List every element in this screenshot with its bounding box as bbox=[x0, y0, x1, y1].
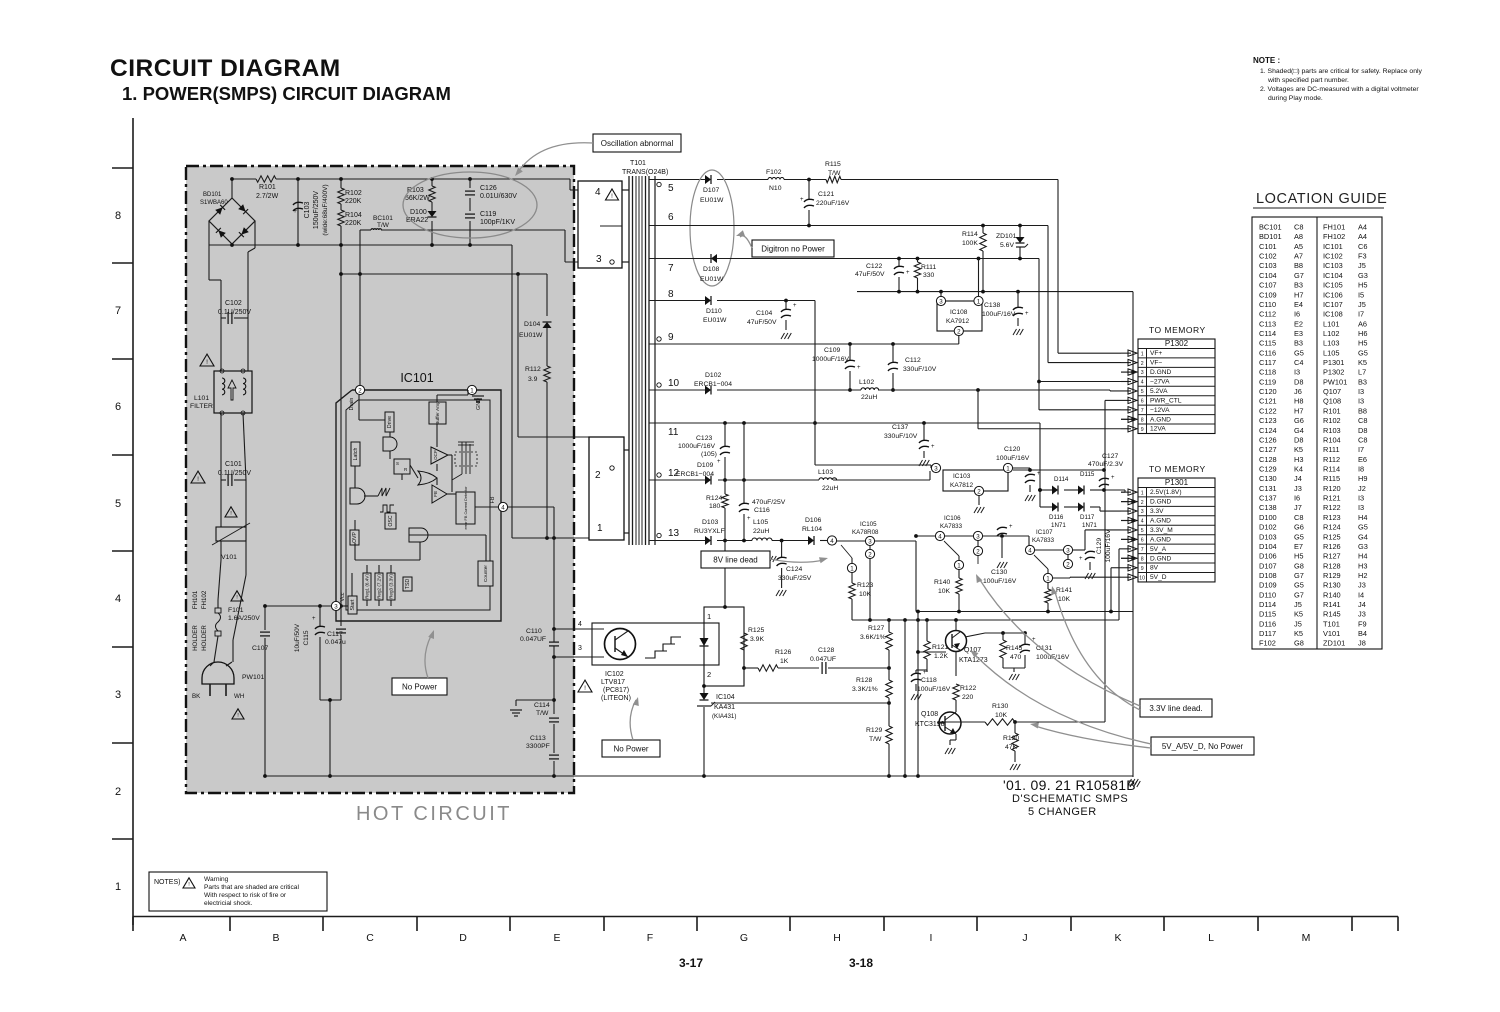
svg-text:(PC817): (PC817) bbox=[603, 687, 629, 694]
svg-text:L101: L101 bbox=[1323, 319, 1339, 328]
svg-text:5V_D: 5V_D bbox=[1150, 574, 1167, 581]
warning triangle L101 bbox=[200, 354, 214, 366]
svg-text:2: 2 bbox=[976, 548, 980, 555]
wire 8V rail x815 bbox=[813, 301, 931, 469]
svg-text:K5: K5 bbox=[1294, 610, 1303, 619]
svg-text:IC107: IC107 bbox=[1323, 300, 1343, 309]
svg-text:FILTER: FILTER bbox=[190, 403, 213, 410]
svg-text:TO MEMORY: TO MEMORY bbox=[1149, 325, 1206, 335]
svg-text:R114: R114 bbox=[962, 231, 978, 238]
svg-text:J4: J4 bbox=[1358, 600, 1366, 609]
svg-text:Reg2 (7.2V): Reg2 (7.2V) bbox=[377, 574, 382, 599]
svg-text:I7: I7 bbox=[1358, 310, 1364, 319]
diode D103 bbox=[694, 519, 725, 545]
capacitor C130 bbox=[983, 524, 1017, 585]
svg-text:1.6A/250V: 1.6A/250V bbox=[228, 615, 260, 622]
svg-text:4: 4 bbox=[578, 621, 582, 628]
svg-text:IC104: IC104 bbox=[1323, 271, 1343, 280]
capacitor C103 bbox=[293, 177, 329, 247]
svg-text:R130: R130 bbox=[992, 703, 1008, 710]
svg-text:C131: C131 bbox=[1259, 484, 1277, 493]
svg-text:D114: D114 bbox=[1259, 600, 1276, 609]
svg-text:C109: C109 bbox=[1259, 290, 1277, 299]
svg-text:4: 4 bbox=[938, 533, 942, 540]
svg-text:EU01W: EU01W bbox=[700, 276, 724, 283]
svg-text:4: 4 bbox=[595, 187, 601, 198]
transformer T101 label bbox=[622, 160, 668, 176]
svg-text:R102: R102 bbox=[1323, 416, 1341, 425]
svg-text:E6: E6 bbox=[1358, 455, 1367, 464]
wire Q108 emitter bbox=[945, 734, 956, 754]
svg-text:0.047UF: 0.047UF bbox=[520, 636, 546, 643]
svg-text:E3: E3 bbox=[1294, 329, 1303, 338]
opto pin4 wire bbox=[552, 621, 604, 631]
svg-text:I3: I3 bbox=[1358, 494, 1364, 503]
svg-text:I8: I8 bbox=[1358, 465, 1364, 474]
svg-text:G5: G5 bbox=[1358, 523, 1368, 532]
svg-text:7: 7 bbox=[1141, 547, 1144, 553]
svg-text:J5: J5 bbox=[1358, 300, 1366, 309]
svg-text:47K: 47K bbox=[1005, 744, 1018, 751]
svg-text:5: 5 bbox=[115, 498, 121, 510]
svg-text:B3: B3 bbox=[1294, 281, 1303, 290]
svg-text:D104: D104 bbox=[1259, 542, 1277, 551]
bridge rectifier BD101 bbox=[200, 177, 255, 247]
oscillation ellipse bbox=[403, 172, 537, 238]
diode D108 bbox=[700, 254, 724, 283]
resistor R115 bbox=[825, 161, 841, 183]
svg-text:P1301: P1301 bbox=[1165, 478, 1189, 487]
svg-text:6: 6 bbox=[1141, 538, 1144, 544]
svg-text:C124: C124 bbox=[786, 566, 802, 573]
svg-text:3: 3 bbox=[1141, 509, 1144, 515]
svg-text:C137: C137 bbox=[1259, 494, 1277, 503]
svg-text:11: 11 bbox=[668, 427, 679, 438]
svg-text:C130: C130 bbox=[1259, 474, 1277, 483]
svg-text:C113: C113 bbox=[1259, 319, 1276, 328]
svg-text:IC104: IC104 bbox=[716, 694, 735, 701]
connector P1302 bbox=[1138, 325, 1215, 434]
svg-text:D8: D8 bbox=[1294, 436, 1303, 445]
svg-text:RL104: RL104 bbox=[802, 526, 822, 533]
svg-text:−12VA: −12VA bbox=[1150, 407, 1170, 414]
wire net292 bbox=[857, 290, 1133, 294]
svg-text:+: + bbox=[1111, 475, 1115, 481]
gray arrow 3.3V a bbox=[976, 574, 1140, 706]
svg-text:H5: H5 bbox=[1358, 281, 1367, 290]
transformer T101 windings bbox=[629, 176, 649, 545]
svg-text:3: 3 bbox=[934, 465, 938, 472]
wire 2.5V row bbox=[1040, 488, 1125, 492]
svg-text:EU01W: EU01W bbox=[703, 317, 727, 324]
svg-text:R101: R101 bbox=[1323, 406, 1341, 415]
wire row5 bbox=[683, 178, 1058, 182]
wire R104 to Vcc bbox=[339, 243, 343, 606]
svg-text:D114: D114 bbox=[1054, 476, 1069, 483]
svg-text:!: ! bbox=[206, 359, 208, 366]
svg-text:R121: R121 bbox=[1323, 494, 1341, 503]
wire FB junction bbox=[553, 507, 555, 629]
svg-text:330: 330 bbox=[923, 272, 935, 279]
svg-text:D.GND: D.GND bbox=[1150, 369, 1171, 376]
svg-text:I3: I3 bbox=[1294, 368, 1300, 377]
svg-text:D115: D115 bbox=[1080, 471, 1095, 478]
wire primary node to pin1 bbox=[512, 245, 589, 540]
svg-text:1: 1 bbox=[1141, 351, 1144, 357]
svg-text:OVP: OVP bbox=[352, 531, 358, 542]
wire KA431 ref bbox=[711, 701, 891, 705]
svg-text:VF+: VF+ bbox=[1150, 350, 1162, 357]
svg-text:A.GND: A.GND bbox=[1150, 517, 1171, 524]
svg-text:2: 2 bbox=[1066, 561, 1070, 568]
svg-text:L102: L102 bbox=[859, 379, 874, 386]
regulator IC103 bbox=[931, 463, 1012, 495]
svg-text:PWR_CTL: PWR_CTL bbox=[1150, 397, 1182, 404]
svg-text:LTV817: LTV817 bbox=[601, 679, 625, 686]
wire opto feed bbox=[723, 539, 727, 607]
svg-text:C119: C119 bbox=[480, 211, 496, 218]
svg-text:0.01U/630V: 0.01U/630V bbox=[480, 193, 517, 200]
wire gnd taps P1301 bbox=[1121, 500, 1135, 560]
wire ladder right rail bbox=[248, 221, 255, 371]
gray arrow 5V a bbox=[970, 650, 1151, 744]
svg-text:T/W: T/W bbox=[869, 736, 882, 743]
svg-text:8V line dead: 8V line dead bbox=[713, 555, 757, 564]
svg-text:56K/2W: 56K/2W bbox=[405, 195, 430, 202]
callout 5V no power bbox=[1151, 737, 1254, 755]
svg-text:A7: A7 bbox=[1294, 252, 1303, 261]
svg-text:G7: G7 bbox=[1294, 571, 1304, 580]
svg-text:I5: I5 bbox=[1358, 290, 1364, 299]
svg-text:1000uF/16V: 1000uF/16V bbox=[812, 356, 850, 363]
svg-text:J3: J3 bbox=[1358, 610, 1366, 619]
svg-text:J4: J4 bbox=[1294, 474, 1302, 483]
svg-text:1: 1 bbox=[957, 562, 961, 569]
svg-text:2: 2 bbox=[977, 488, 981, 495]
svg-text:BD101: BD101 bbox=[1259, 232, 1282, 241]
svg-text:C117: C117 bbox=[327, 631, 343, 638]
svg-text:2.5V(1.8V): 2.5V(1.8V) bbox=[1150, 489, 1182, 496]
svg-text:3: 3 bbox=[115, 689, 121, 701]
svg-text:4: 4 bbox=[1028, 547, 1032, 554]
gray arrow 3.3V b bbox=[1051, 586, 1140, 710]
svg-text:Digitron no Power: Digitron no Power bbox=[761, 244, 825, 253]
svg-text:47uF/50V: 47uF/50V bbox=[855, 271, 885, 278]
svg-text:6: 6 bbox=[115, 401, 121, 413]
capacitor C126 bbox=[465, 177, 517, 211]
wire bus 620 bbox=[852, 618, 1119, 622]
svg-text:D8: D8 bbox=[1358, 426, 1367, 435]
transformer secondary pins bbox=[649, 180, 683, 541]
svg-text:TO MEMORY: TO MEMORY bbox=[1149, 464, 1206, 474]
pin 1 GND bbox=[467, 385, 484, 410]
svg-text:H3: H3 bbox=[1358, 561, 1367, 570]
svg-text:+: + bbox=[923, 670, 927, 676]
svg-text:I3: I3 bbox=[1358, 503, 1364, 512]
svg-text:C115: C115 bbox=[303, 630, 310, 645]
wire 12VA branch bbox=[978, 390, 1121, 429]
svg-text:4: 4 bbox=[1141, 519, 1144, 525]
svg-text:D103: D103 bbox=[702, 519, 718, 526]
svg-text:NOTES): NOTES) bbox=[154, 879, 180, 886]
svg-text:IC105: IC105 bbox=[1323, 281, 1343, 290]
svg-text:5.6V: 5.6V bbox=[1000, 242, 1014, 249]
svg-text:PW101: PW101 bbox=[1323, 377, 1347, 386]
block Reg2 bbox=[375, 573, 383, 600]
connector P1301 bbox=[1138, 464, 1215, 582]
svg-text:CIRCUIT DIAGRAM: CIRCUIT DIAGRAM bbox=[110, 55, 341, 82]
notes warning box bbox=[149, 872, 327, 911]
svg-text:D107: D107 bbox=[703, 187, 719, 194]
svg-text:C116: C116 bbox=[754, 507, 770, 514]
svg-text:0.1U/250V: 0.1U/250V bbox=[218, 309, 251, 316]
svg-text:9: 9 bbox=[1141, 566, 1144, 572]
svg-text:R114: R114 bbox=[1323, 465, 1340, 474]
svg-text:+: + bbox=[1009, 524, 1013, 530]
svg-text:H7: H7 bbox=[1294, 406, 1303, 415]
svg-text:FB: FB bbox=[490, 496, 496, 503]
pin 2 Drain bbox=[349, 385, 365, 410]
svg-text:C103: C103 bbox=[1259, 261, 1277, 270]
svg-text:1: 1 bbox=[115, 881, 121, 893]
capacitor C101 bbox=[218, 461, 251, 486]
svg-text:HOT CIRCUIT: HOT CIRCUIT bbox=[356, 803, 512, 825]
svg-text:A.GND: A.GND bbox=[1150, 416, 1171, 423]
svg-text:10K: 10K bbox=[1058, 596, 1071, 603]
svg-text:PW101: PW101 bbox=[242, 674, 265, 681]
svg-text:D109: D109 bbox=[697, 462, 713, 469]
svg-text:100uF/16V: 100uF/16V bbox=[983, 578, 1017, 585]
svg-text:7: 7 bbox=[1141, 408, 1144, 414]
svg-text:C126: C126 bbox=[1259, 436, 1277, 445]
svg-text:H6: H6 bbox=[1358, 329, 1367, 338]
svg-text:C120: C120 bbox=[1259, 387, 1277, 396]
svg-text:Q108: Q108 bbox=[921, 711, 938, 718]
svg-text:HOLDER: HOLDER bbox=[201, 625, 208, 651]
svg-text:R115: R115 bbox=[1323, 474, 1340, 483]
svg-text:H: H bbox=[833, 932, 841, 944]
svg-text:C122: C122 bbox=[866, 263, 882, 270]
svg-text:1N71: 1N71 bbox=[1082, 522, 1097, 529]
svg-text:D.GND: D.GND bbox=[1150, 499, 1171, 506]
svg-text:K: K bbox=[1114, 932, 1121, 944]
capacitor C138 bbox=[982, 292, 1029, 335]
ground revision bbox=[1130, 781, 1140, 787]
svg-text:+: + bbox=[800, 197, 804, 203]
svg-text:G4: G4 bbox=[1358, 532, 1368, 541]
digitron callout bbox=[752, 240, 834, 257]
svg-text:N10: N10 bbox=[769, 185, 782, 192]
wire ladder mid bbox=[221, 413, 246, 527]
wire row10 bbox=[683, 388, 1121, 392]
svg-text:IC106: IC106 bbox=[1323, 290, 1343, 299]
pin 4 FB bbox=[490, 496, 554, 511]
svg-text:B3: B3 bbox=[1294, 339, 1303, 348]
svg-text:I3: I3 bbox=[1358, 387, 1364, 396]
svg-text:10: 10 bbox=[668, 378, 680, 389]
svg-text:220uF/16V: 220uF/16V bbox=[816, 200, 850, 207]
svg-text:7: 7 bbox=[115, 305, 121, 317]
svg-text:D100: D100 bbox=[1259, 513, 1277, 522]
svg-text:R141: R141 bbox=[1323, 600, 1341, 609]
svg-text:OSC: OSC bbox=[388, 515, 394, 526]
svg-text:L105: L105 bbox=[753, 519, 768, 526]
changer text bbox=[1028, 806, 1097, 818]
svg-text:G6: G6 bbox=[1294, 523, 1304, 532]
svg-text:J6: J6 bbox=[1294, 387, 1302, 396]
svg-text:220K: 220K bbox=[345, 198, 362, 205]
gray arrow no power 2 bbox=[630, 697, 639, 740]
svg-text:R111: R111 bbox=[921, 264, 936, 271]
wire R130 right bbox=[1013, 720, 1105, 724]
svg-text:ERA22: ERA22 bbox=[406, 217, 428, 224]
gray arrow oscillation bbox=[515, 143, 593, 176]
wire v918 bbox=[917, 612, 919, 777]
svg-text:8V: 8V bbox=[1150, 565, 1159, 572]
svg-text:H4: H4 bbox=[1358, 513, 1367, 522]
svg-text:8: 8 bbox=[115, 210, 121, 222]
svg-text:100uF/16V: 100uF/16V bbox=[1105, 529, 1112, 563]
svg-text:100pF/1KV: 100pF/1KV bbox=[480, 219, 515, 226]
svg-text:4: 4 bbox=[501, 504, 505, 511]
svg-text:C103: C103 bbox=[304, 202, 311, 219]
wire IC103 out bbox=[1013, 468, 1106, 472]
wire Q108 base bbox=[938, 722, 985, 723]
wire PWR_CTL bbox=[1105, 400, 1121, 722]
wire Q107 emitter bbox=[955, 651, 957, 676]
svg-text:I7: I7 bbox=[1358, 445, 1364, 454]
resistor R125 bbox=[741, 627, 765, 650]
svg-text:C122: C122 bbox=[1259, 406, 1277, 415]
opto IC102 body bbox=[592, 623, 719, 665]
svg-text:C8: C8 bbox=[1294, 513, 1303, 522]
diode D106 bbox=[802, 517, 822, 545]
capacitor C123 bbox=[678, 423, 730, 480]
svg-text:C4: C4 bbox=[1294, 358, 1303, 367]
wire 5V_A drop bbox=[1119, 549, 1121, 620]
svg-text:2: 2 bbox=[115, 786, 121, 798]
wire Q107 out row bbox=[965, 631, 1027, 637]
svg-text:C8: C8 bbox=[1294, 223, 1303, 232]
svg-text:+: + bbox=[717, 459, 721, 465]
svg-text:C110: C110 bbox=[1259, 300, 1276, 309]
svg-text:(LITEON): (LITEON) bbox=[601, 695, 631, 702]
svg-text:0.047u: 0.047u bbox=[325, 639, 346, 646]
svg-text:R127: R127 bbox=[1323, 552, 1341, 561]
wire IC105 out bbox=[875, 541, 916, 612]
svg-text:G5: G5 bbox=[1294, 532, 1304, 541]
diode D117 bbox=[1078, 503, 1097, 530]
capacitor C116 bbox=[739, 423, 786, 541]
resistor R122 bbox=[953, 684, 977, 712]
svg-text:C118: C118 bbox=[921, 677, 937, 684]
svg-text:F102: F102 bbox=[766, 169, 782, 176]
flipflop RS bbox=[394, 459, 410, 474]
block Latch bbox=[351, 442, 360, 466]
svg-text:A5: A5 bbox=[1294, 242, 1303, 251]
callout 3.3V line dead bbox=[1140, 699, 1212, 717]
svg-text:10uF/50V: 10uF/50V bbox=[294, 623, 301, 652]
svg-text:3: 3 bbox=[578, 645, 582, 652]
opto diode box bbox=[704, 607, 744, 686]
svg-text:D116: D116 bbox=[1049, 514, 1064, 521]
earth ground gray bbox=[510, 700, 554, 716]
gate B bbox=[350, 488, 365, 504]
svg-text:L103: L103 bbox=[1323, 339, 1339, 348]
wire Q107 collector bbox=[955, 620, 957, 630]
svg-text:ERCB1−004: ERCB1−004 bbox=[694, 381, 732, 388]
svg-text:A4: A4 bbox=[1358, 223, 1367, 232]
svg-text:TRANS(O24B): TRANS(O24B) bbox=[622, 169, 668, 176]
capacitor C137 bbox=[884, 423, 935, 466]
wire 1N71 row bbox=[1038, 488, 1121, 511]
svg-text:R128: R128 bbox=[856, 677, 872, 684]
svg-text:L103: L103 bbox=[818, 469, 833, 476]
svg-text:2.7/2W: 2.7/2W bbox=[256, 193, 279, 200]
regulator IC108 bbox=[936, 259, 983, 345]
svg-text:0.1U/250V: 0.1U/250V bbox=[218, 470, 251, 477]
resistor R114 bbox=[962, 226, 986, 292]
svg-text:R103: R103 bbox=[1323, 426, 1341, 435]
svg-text:L7: L7 bbox=[1358, 368, 1366, 377]
svg-text:D103: D103 bbox=[1259, 532, 1277, 541]
svg-text:E4: E4 bbox=[1294, 300, 1303, 309]
svg-text:100uF/16V: 100uF/16V bbox=[982, 311, 1016, 318]
svg-text:H9: H9 bbox=[1358, 474, 1367, 483]
svg-text:3.9K: 3.9K bbox=[750, 636, 764, 643]
svg-text:(wide:68uF/400V): (wide:68uF/400V) bbox=[322, 184, 329, 235]
svg-text:F101: F101 bbox=[228, 607, 244, 614]
svg-text:C138: C138 bbox=[1259, 503, 1277, 512]
svg-text:J: J bbox=[1022, 932, 1027, 944]
svg-text:4: 4 bbox=[830, 538, 834, 545]
svg-text:J8: J8 bbox=[1358, 639, 1366, 648]
svg-text:T/W: T/W bbox=[377, 222, 390, 229]
svg-text:R129: R129 bbox=[866, 727, 882, 734]
svg-text:3.9: 3.9 bbox=[528, 376, 538, 383]
svg-text:R104: R104 bbox=[1323, 436, 1341, 445]
svg-text:C112: C112 bbox=[905, 357, 921, 364]
svg-text:1: 1 bbox=[1046, 575, 1050, 582]
svg-text:C123: C123 bbox=[1259, 416, 1277, 425]
block Drive bbox=[385, 412, 394, 432]
svg-text:G3: G3 bbox=[1358, 271, 1368, 280]
svg-text:C107: C107 bbox=[1259, 281, 1277, 290]
svg-text:4: 4 bbox=[115, 593, 121, 605]
svg-text:KA431: KA431 bbox=[714, 704, 735, 711]
block TSD bbox=[403, 577, 412, 591]
svg-text:B: B bbox=[272, 932, 279, 944]
svg-text:5: 5 bbox=[668, 183, 674, 194]
svg-text:H8: H8 bbox=[1294, 397, 1303, 406]
svg-text:C104: C104 bbox=[756, 310, 772, 317]
svg-text:G6: G6 bbox=[1294, 416, 1304, 425]
svg-text:IC101: IC101 bbox=[1323, 242, 1343, 251]
svg-text:(KIA431): (KIA431) bbox=[712, 713, 736, 720]
gate D OR bbox=[418, 471, 437, 485]
svg-text:3: 3 bbox=[334, 603, 338, 610]
opto photodiode bbox=[700, 628, 709, 664]
svg-text:K5: K5 bbox=[1358, 358, 1367, 367]
svg-text:With respect to risk of fire o: With respect to risk of fire or bbox=[204, 892, 287, 899]
regulator IC107 bbox=[1025, 529, 1072, 583]
svg-text:I: I bbox=[930, 932, 933, 944]
svg-text:8: 8 bbox=[668, 289, 674, 300]
svg-text:9: 9 bbox=[668, 332, 674, 343]
svg-text:R141: R141 bbox=[1056, 587, 1072, 594]
svg-text:3: 3 bbox=[939, 298, 943, 305]
svg-text:G3: G3 bbox=[1358, 542, 1368, 551]
